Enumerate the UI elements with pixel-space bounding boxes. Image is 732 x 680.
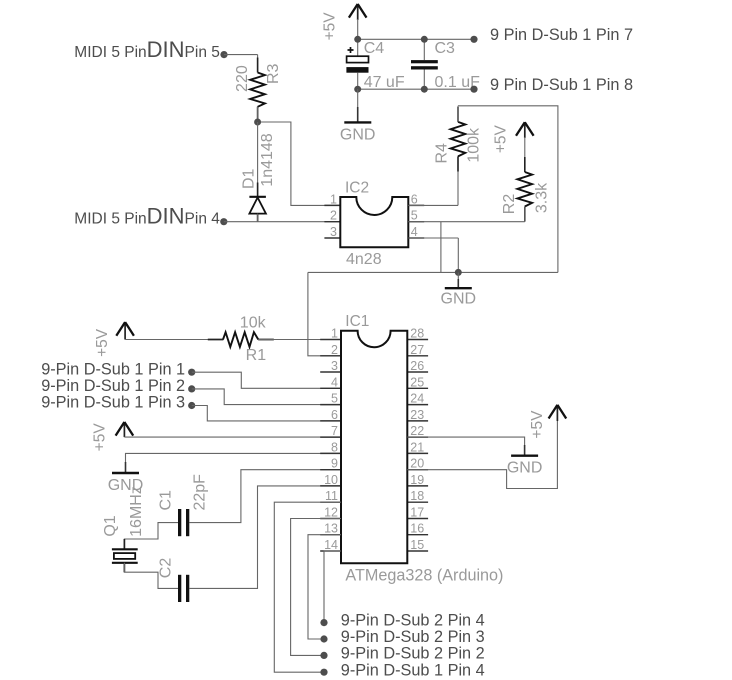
ground (IC1 pin 8)	[108, 473, 144, 494]
svg-text:9-Pin D-Sub 2 Pin 2: 9-Pin D-Sub 2 Pin 2	[341, 645, 485, 663]
svg-text:R3: R3	[265, 63, 282, 84]
svg-text:5: 5	[411, 209, 418, 223]
svg-text:20: 20	[410, 457, 424, 471]
svg-text:Q1: Q1	[102, 515, 119, 536]
wire D-Sub1 Pin1 to IC1 pin 4	[192, 372, 341, 388]
svg-text:9 Pin D-Sub 1 Pin 8: 9 Pin D-Sub 1 Pin 8	[490, 76, 633, 94]
ground (below C4)	[340, 89, 376, 143]
wire R4 top loop to GND rail	[458, 106, 558, 273]
svg-text:9-Pin D-Sub 1 Pin 4: 9-Pin D-Sub 1 Pin 4	[341, 661, 485, 679]
svg-text:47 uF: 47 uF	[364, 74, 405, 91]
wire IC1 pin 20 to +5V	[407, 409, 557, 489]
svg-text:9-Pin D-Sub 1 Pin 2: 9-Pin D-Sub 1 Pin 2	[41, 377, 185, 395]
node 9-Pin D-Sub 2 Pin 2	[320, 645, 484, 663]
svg-text:GND: GND	[441, 291, 477, 308]
svg-text:+5V: +5V	[94, 328, 111, 357]
junction dots on top rails	[354, 36, 428, 93]
wire ground bus down to IC1 pin 2	[308, 272, 341, 355]
wire pin5 branch down	[440, 222, 442, 273]
svg-text:1n4148: 1n4148	[259, 133, 276, 186]
svg-text:13: 13	[324, 522, 338, 536]
svg-text:4: 4	[411, 225, 418, 239]
svg-text:14: 14	[324, 538, 338, 552]
svg-text:2: 2	[331, 343, 338, 357]
svg-text:+5V: +5V	[529, 410, 546, 439]
svg-text:100k: 100k	[466, 127, 483, 163]
wire IC1 pin 11 to D-Sub 1 Pin 4	[274, 502, 341, 672]
wire MIDI pin4 to IC2 pin 2	[224, 221, 341, 223]
node 9-Pin D-Sub 1 Pin 3	[41, 394, 195, 412]
svg-text:9 Pin D-Sub 1 Pin 7: 9 Pin D-Sub 1 Pin 7	[490, 26, 633, 44]
svg-text:GND: GND	[507, 460, 543, 477]
svg-text:11: 11	[325, 489, 338, 503]
svg-text:IC2: IC2	[345, 180, 369, 197]
svg-text:R4: R4	[433, 143, 450, 164]
wire D-Sub1 Pin2 to IC1 pin 5	[192, 389, 341, 405]
node MIDI 5 Pin DIN Pin 5	[74, 37, 227, 62]
svg-text:9: 9	[331, 457, 338, 471]
svg-text:8: 8	[331, 440, 338, 454]
ground (IC1 pin 22)	[507, 456, 543, 477]
svg-text:26: 26	[410, 359, 424, 373]
resistor R4 (100k)	[433, 107, 482, 172]
wire D-Sub1 Pin3 to IC1 pin 6	[192, 406, 341, 421]
svg-text:18: 18	[410, 489, 424, 503]
svg-text:D1: D1	[240, 168, 257, 189]
node 9 Pin D-Sub 1 Pin 8	[470, 76, 633, 94]
svg-text:3: 3	[331, 359, 338, 373]
svg-text:C3: C3	[435, 40, 456, 57]
svg-text:10: 10	[324, 473, 338, 487]
svg-text:27: 27	[410, 343, 424, 357]
svg-text:C4: C4	[364, 40, 385, 57]
svg-text:ATMega328 (Arduino): ATMega328 (Arduino)	[345, 566, 503, 584]
svg-text:IC1: IC1	[345, 313, 369, 330]
svg-text:22: 22	[410, 424, 424, 438]
node 9-Pin D-Sub 1 Pin 2	[41, 377, 195, 395]
node 9-Pin D-Sub 2 Pin 3	[320, 628, 484, 646]
wire junction to IC2 pin 1	[258, 122, 341, 205]
node 9-Pin D-Sub 1 Pin 4	[320, 661, 484, 679]
svg-text:9-Pin D-Sub 2 Pin 3: 9-Pin D-Sub 2 Pin 3	[341, 628, 485, 646]
wire ground bus y=272.4	[308, 271, 558, 273]
wire +5V to R1	[125, 339, 223, 341]
node junction below R3	[254, 119, 261, 126]
svg-text:1: 1	[331, 327, 338, 341]
wire IC2 pin 4 down to ground node	[408, 238, 458, 272]
svg-text:10k: 10k	[240, 315, 267, 332]
resistor R3 (220)	[234, 58, 282, 122]
svg-text:9-Pin D-Sub 1 Pin 3: 9-Pin D-Sub 1 Pin 3	[41, 394, 185, 412]
capacitor C2 (22pF)	[158, 558, 190, 602]
wire IC1 pin 12 to D-Sub 2 Pin 2	[291, 519, 341, 656]
resistor R1 (10k)	[208, 315, 274, 364]
svg-text:28: 28	[410, 327, 424, 341]
power +5V (above R2)	[493, 122, 534, 172]
svg-text:+5V: +5V	[493, 124, 510, 153]
diode D1 (1n4148)	[240, 133, 276, 221]
svg-text:15: 15	[410, 538, 424, 552]
capacitor C1 (22pF)	[157, 474, 208, 536]
node MIDI 5 Pin DIN Pin 4	[74, 204, 227, 229]
capacitor C3	[411, 39, 480, 91]
wire IC2 pin 5 to R2	[408, 221, 525, 223]
power +5V (IC1 pin 7)	[92, 422, 134, 451]
svg-text:1: 1	[330, 192, 337, 206]
wire IC1 pin 9 to C1	[189, 470, 341, 523]
svg-text:6: 6	[411, 192, 418, 206]
svg-text:3: 3	[330, 225, 337, 239]
wire IC1 pin 13 to D-Sub 2 Pin 3	[308, 535, 341, 639]
wire crystal Q1 to C2	[124, 563, 178, 589]
svg-text:23: 23	[410, 408, 424, 422]
op-amp IC1 (ATMega328)	[320, 313, 503, 584]
svg-text:220: 220	[234, 65, 251, 92]
svg-text:4: 4	[331, 375, 338, 389]
wire IC1 pin 8 to ground	[126, 453, 342, 463]
node 9 Pin D-Sub 1 Pin 7	[470, 26, 633, 44]
wire IC1 pin 22 to ground	[407, 437, 524, 446]
node 9-Pin D-Sub 2 Pin 4	[320, 612, 484, 630]
svg-text:16: 16	[410, 522, 424, 536]
svg-text:C2: C2	[158, 558, 175, 579]
node 9-Pin D-Sub 1 Pin 1	[41, 361, 195, 379]
svg-text:C1: C1	[157, 490, 174, 511]
transistor Q1 (crystal 16MHz)	[102, 486, 145, 572]
resistor R2 (3.3k)	[501, 157, 551, 222]
ground (IC2 area)	[441, 272, 477, 307]
svg-text:GND: GND	[340, 127, 376, 144]
svg-text:19: 19	[410, 473, 424, 487]
svg-text:16MHz: 16MHz	[128, 486, 145, 537]
svg-text:21: 21	[410, 440, 424, 454]
wire C2 to IC1 pin 10	[189, 486, 341, 589]
svg-text:22pF: 22pF	[191, 474, 208, 511]
svg-text:5: 5	[331, 392, 338, 406]
wire IC2 pin 6 to R4	[408, 156, 458, 205]
svg-text:+5V: +5V	[92, 423, 109, 452]
svg-text:3.3k: 3.3k	[534, 182, 551, 213]
wire junction to D1	[257, 122, 259, 197]
svg-text:4n28: 4n28	[346, 251, 382, 268]
node ground junction	[455, 269, 462, 276]
svg-text:2: 2	[330, 209, 337, 223]
wire R1 to IC1 pin 1	[258, 339, 341, 341]
svg-text:R1: R1	[246, 347, 267, 364]
svg-text:7: 7	[331, 424, 338, 438]
wire R3 bottom to junction	[257, 107, 259, 122]
wire C1 to crystal Q1	[124, 523, 178, 550]
svg-text:6: 6	[331, 408, 338, 422]
wire +5V to IC1 pin 7	[124, 436, 341, 438]
wire MIDI pin5 to R3	[224, 55, 258, 73]
svg-text:R2: R2	[501, 194, 518, 215]
svg-text:12: 12	[324, 506, 338, 520]
svg-text:9-Pin D-Sub 1 Pin 1: 9-Pin D-Sub 1 Pin 1	[41, 361, 185, 379]
svg-text:17: 17	[410, 506, 424, 520]
power +5V (IC1 pin 20)	[529, 405, 566, 439]
svg-text:24: 24	[410, 392, 424, 406]
op-amp IC2 (4n28 optocoupler)	[324, 180, 424, 268]
wire IC1 pin 14 to D-Sub 2 Pin 4	[324, 551, 341, 623]
power +5V (left of R1)	[94, 322, 134, 357]
svg-text:9-Pin D-Sub 2 Pin 4: 9-Pin D-Sub 2 Pin 4	[341, 612, 485, 630]
wire top bus y=39.3	[358, 38, 474, 40]
svg-text:25: 25	[410, 375, 424, 389]
capacitor C4	[346, 39, 404, 91]
wire bottom bus y=89.2	[358, 88, 474, 90]
svg-text:+5V: +5V	[322, 12, 339, 41]
power +5V (top, C4/C3 rail)	[322, 4, 367, 40]
